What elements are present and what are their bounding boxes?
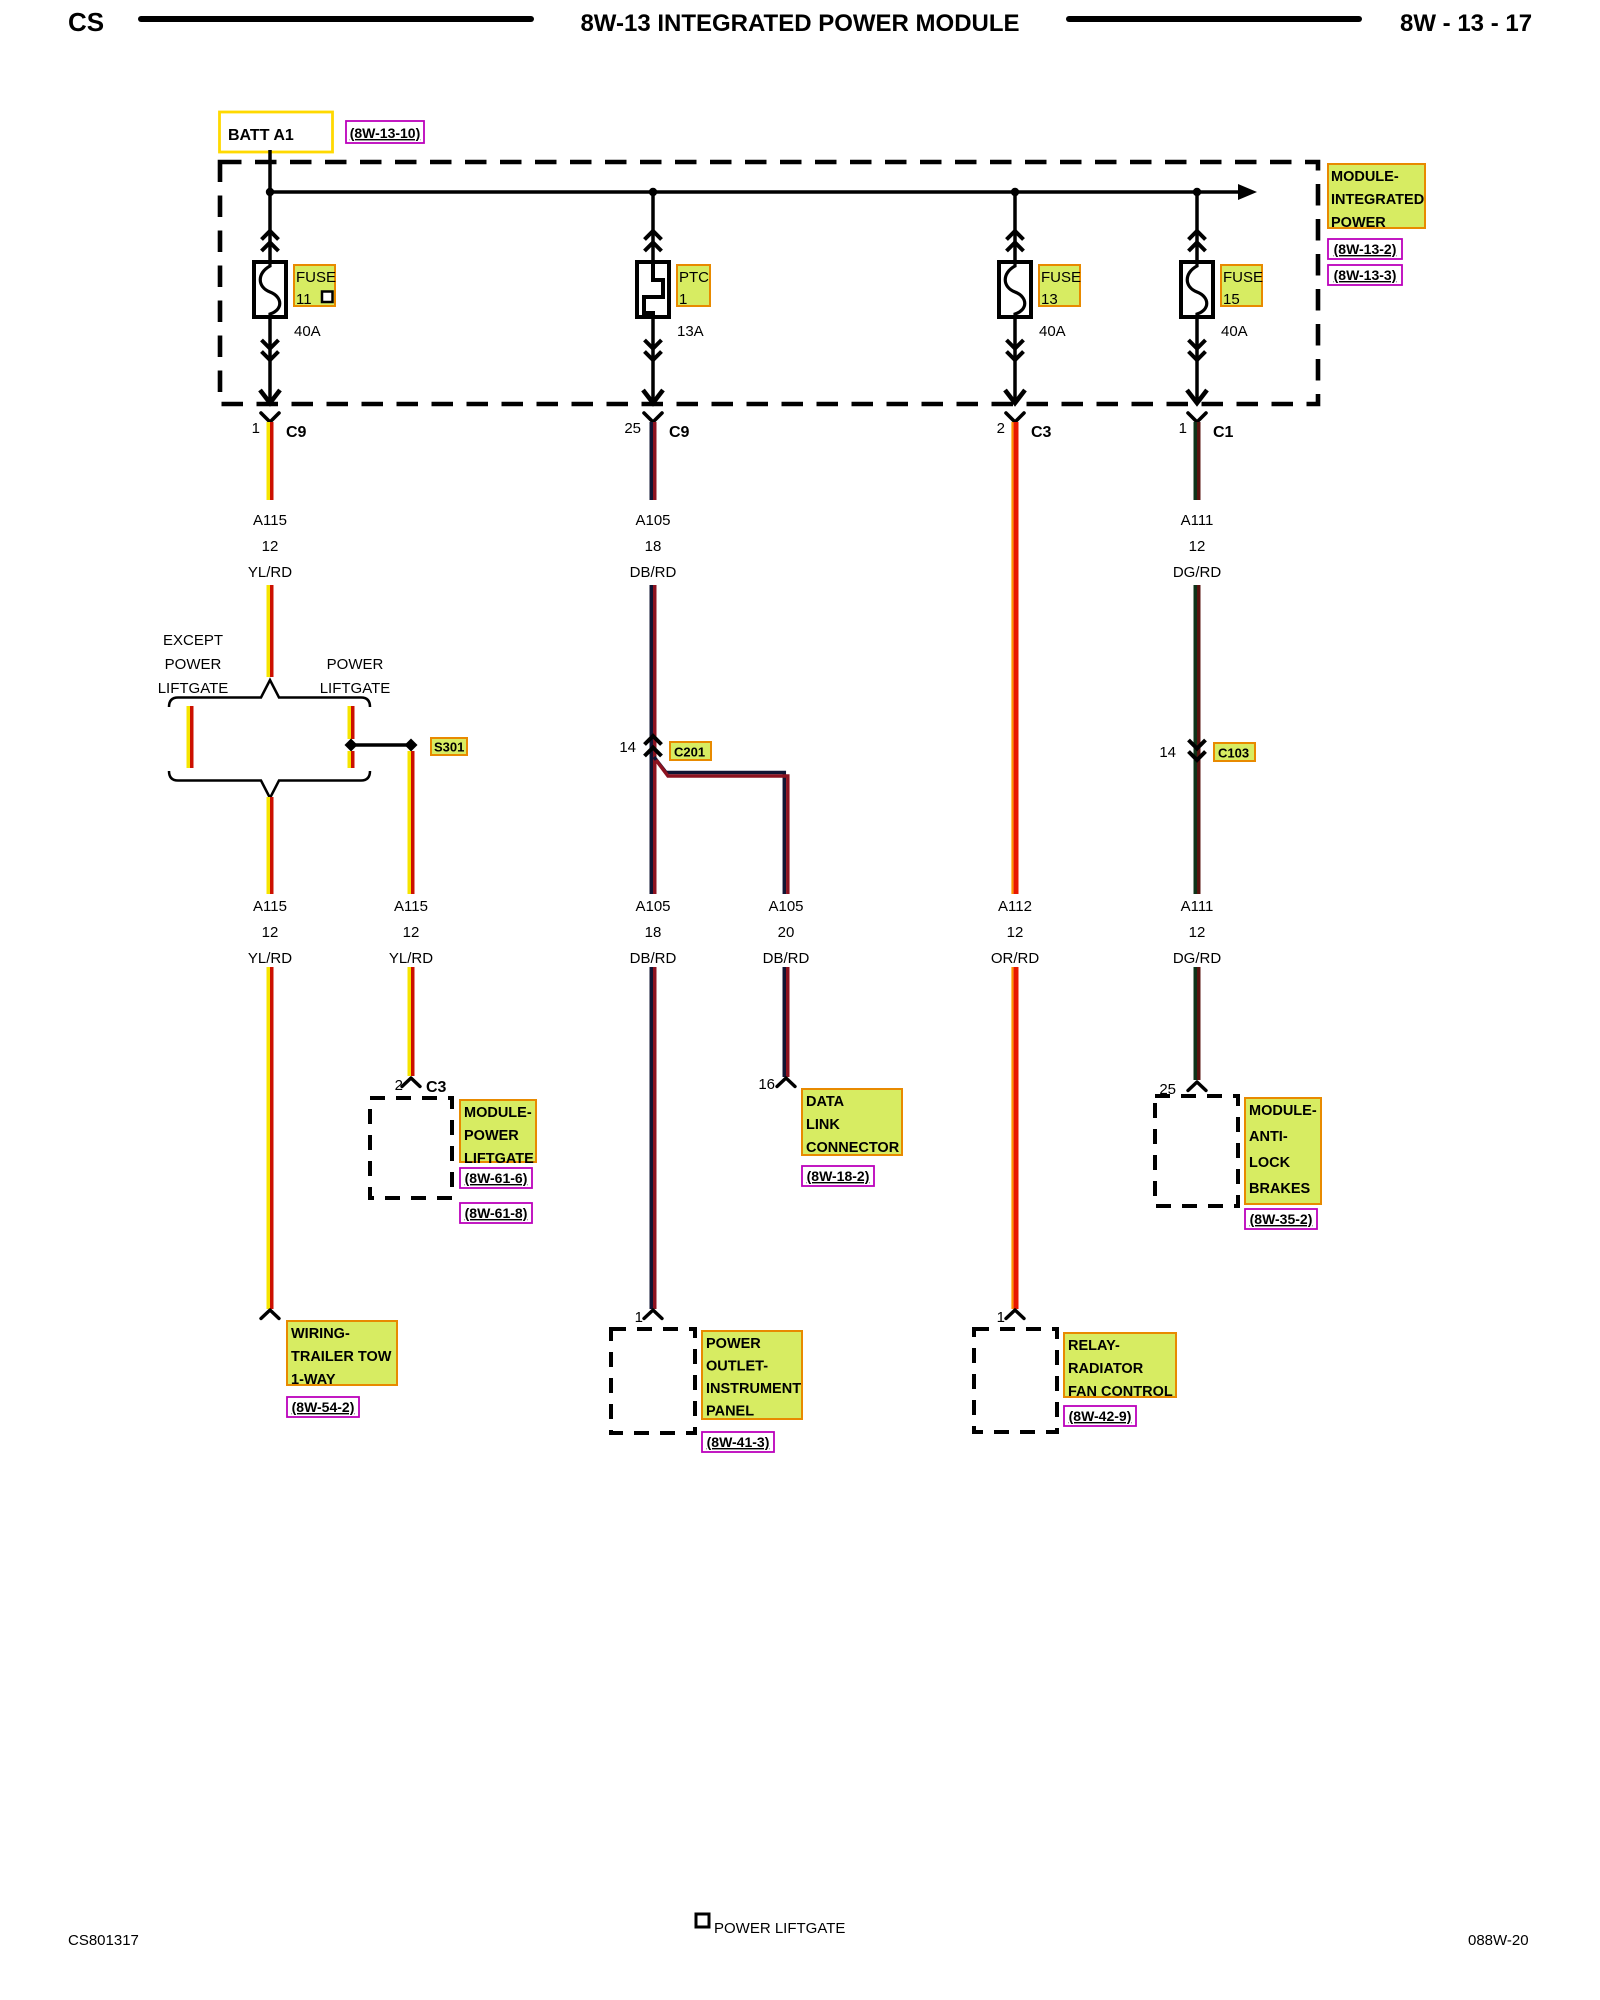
svg-text:C1: C1 — [1213, 424, 1234, 441]
wire A105 seg2 — [651, 585, 655, 894]
hyperlink 8W-13-2 — [1328, 239, 1402, 259]
connector double-chevron above FUSE 11 — [262, 231, 279, 251]
wire A115 seg2 — [268, 585, 272, 677]
svg-text:1: 1 — [635, 1309, 643, 1326]
svg-text:(8W-18-2): (8W-18-2) — [807, 1168, 870, 1184]
fuse FUSE 13 symbol — [999, 262, 1031, 317]
wire below fuse 15 — [1195, 317, 1199, 402]
svg-text:OR/RD: OR/RD — [991, 950, 1040, 967]
svg-text:LIFTGATE: LIFTGATE — [320, 680, 391, 697]
svg-text:8W - 13 - 17: 8W - 13 - 17 — [1400, 10, 1532, 37]
svg-text:2: 2 — [395, 1077, 403, 1094]
svg-text:1: 1 — [679, 291, 687, 308]
svg-text:18: 18 — [645, 924, 662, 941]
svg-text:BATT A1: BATT A1 — [228, 127, 294, 144]
svg-text:S301: S301 — [434, 740, 464, 755]
relay-radiator fan control label — [1064, 1333, 1176, 1400]
connector double-chevron above PTC 1 — [645, 231, 662, 251]
svg-text:MODULE-: MODULE- — [1331, 169, 1399, 185]
fuse label FUSE 15 — [1221, 265, 1263, 308]
connector C1 pin 1 — [1188, 413, 1206, 422]
wire A112 seg1 — [1012, 422, 1016, 894]
svg-text:POWER: POWER — [1331, 215, 1386, 231]
ptc label PTC 1 — [677, 265, 710, 308]
svg-text:MODULE-: MODULE- — [464, 1105, 532, 1121]
svg-text:(8W-35-2): (8W-35-2) — [1250, 1211, 1313, 1227]
splice diamond S301 splice b — [405, 739, 418, 752]
svg-text:FUSE: FUSE — [1223, 269, 1263, 286]
svg-text:A112: A112 — [998, 898, 1032, 915]
hyperlink 8W-61-8 — [460, 1203, 532, 1223]
wire A111 seg3 — [1195, 967, 1199, 1080]
svg-text:POWER: POWER — [464, 1128, 519, 1144]
note POWER LIFTGATE — [320, 656, 391, 697]
junction node 2 — [649, 188, 657, 196]
wire end arrow col 11 — [260, 390, 280, 403]
hyperlink 8W-13-3 — [1328, 265, 1402, 285]
ptc PTC 1 symbol — [637, 262, 669, 317]
svg-text:DG/RD: DG/RD — [1173, 564, 1222, 581]
svg-text:BRAKES: BRAKES — [1249, 1181, 1311, 1197]
svg-text:OUTLET-: OUTLET- — [706, 1359, 768, 1375]
connector liftgate module pin2 — [402, 1078, 420, 1087]
wire label A105 top — [630, 512, 677, 581]
splice link wire — [351, 743, 411, 747]
svg-text:1: 1 — [252, 420, 260, 437]
wire A105 seg3 — [651, 967, 655, 1309]
svg-text:FUSE: FUSE — [1041, 269, 1081, 286]
svg-text:2: 2 — [997, 420, 1005, 437]
connector double-chevron above FUSE 15 — [1189, 231, 1206, 251]
svg-text:(8W-13-10): (8W-13-10) — [350, 125, 421, 141]
svg-text:A105: A105 — [768, 898, 803, 915]
junction node 1 — [266, 188, 274, 196]
junction node 4 — [1193, 188, 1201, 196]
svg-text:12: 12 — [1189, 538, 1206, 555]
svg-text:CS801317: CS801317 — [68, 1932, 139, 1949]
fuse label FUSE 11 — [294, 265, 336, 308]
module-anti-lock brakes label — [1245, 1098, 1321, 1204]
wire A111 seg2 — [1195, 585, 1199, 894]
svg-text:DB/RD: DB/RD — [630, 950, 677, 967]
svg-text:A105: A105 — [635, 512, 670, 529]
svg-text:CONNECTOR: CONNECTOR — [806, 1140, 900, 1156]
connector power outlet pin1 — [644, 1310, 662, 1319]
svg-text:12: 12 — [262, 538, 279, 555]
connector trailer tow in — [261, 1310, 279, 1319]
connector C201 label — [670, 742, 711, 760]
module-integrated power label — [1328, 164, 1425, 231]
connector DLC pin16 — [777, 1078, 795, 1087]
wire drop to fuse 13 — [1013, 192, 1017, 263]
fuse FUSE 15 symbol — [1181, 262, 1213, 317]
wire drop to fuse 15 — [1195, 192, 1199, 263]
connector double-chevron below FUSE 15 — [1189, 340, 1206, 360]
hyperlink 8W-41-3 — [702, 1432, 774, 1452]
svg-text:A115: A115 — [394, 898, 428, 915]
svg-text:PANEL: PANEL — [706, 1404, 754, 1420]
connector C103 label — [1214, 743, 1255, 761]
svg-text:12: 12 — [262, 924, 279, 941]
hyperlink 8W-18-2 — [802, 1166, 874, 1186]
svg-text:1: 1 — [997, 1309, 1005, 1326]
svg-text:11: 11 — [296, 291, 312, 308]
svg-text:(8W-13-3): (8W-13-3) — [1334, 267, 1397, 283]
svg-text:A105: A105 — [635, 898, 670, 915]
svg-text:FUSE: FUSE — [296, 269, 336, 286]
svg-text:YL/RD: YL/RD — [248, 564, 292, 581]
svg-text:MODULE-: MODULE- — [1249, 1103, 1317, 1119]
connector abs module pin25 — [1188, 1082, 1206, 1091]
svg-text:(8W-61-8): (8W-61-8) — [465, 1205, 528, 1221]
power outlet-instrument panel label — [702, 1331, 802, 1420]
svg-text:LIFTGATE: LIFTGATE — [158, 680, 229, 697]
junction node 3 — [1011, 188, 1019, 196]
bus arrowhead — [1238, 184, 1257, 200]
module-power liftgate label — [460, 1100, 536, 1167]
wire label A115 branch — [389, 898, 433, 967]
wire label A111 top — [1173, 512, 1222, 581]
svg-text:25: 25 — [624, 420, 641, 437]
svg-text:40A: 40A — [1221, 323, 1248, 340]
svg-text:1-WAY: 1-WAY — [291, 1372, 336, 1388]
hyperlink 8W-13-10 — [346, 121, 424, 143]
svg-text:13A: 13A — [677, 323, 704, 340]
svg-text:40A: 40A — [294, 323, 321, 340]
connector double-chevron C201 — [645, 736, 662, 756]
wire A112 seg2 — [1012, 967, 1016, 1309]
wire label A111 mid — [1173, 898, 1222, 967]
wire drop to fuse 11 — [268, 192, 272, 263]
hyperlink 8W-42-9 — [1064, 1406, 1136, 1426]
connector radiator fan relay pin1 — [1006, 1310, 1024, 1319]
data link connector label — [802, 1089, 902, 1156]
header right rule — [1069, 16, 1359, 22]
svg-text:C3: C3 — [426, 1079, 447, 1096]
brace split top — [169, 680, 370, 707]
wire A115 liftgate branch upper — [349, 706, 353, 739]
svg-text:(8W-41-3): (8W-41-3) — [707, 1434, 770, 1450]
svg-text:RELAY-: RELAY- — [1068, 1338, 1120, 1354]
svg-text:(8W-42-9): (8W-42-9) — [1069, 1408, 1132, 1424]
svg-text:12: 12 — [1189, 924, 1206, 941]
svg-text:POWER: POWER — [165, 656, 222, 673]
component outline module-anti-lock brakes — [1155, 1096, 1238, 1206]
component outline power outlet — [611, 1329, 695, 1433]
svg-text:POWER: POWER — [327, 656, 384, 673]
svg-text:C3: C3 — [1031, 424, 1052, 441]
svg-text:POWER LIFTGATE: POWER LIFTGATE — [714, 1920, 845, 1937]
svg-text:15: 15 — [1223, 291, 1240, 308]
svg-text:DG/RD: DG/RD — [1173, 950, 1222, 967]
connector double-chevron C103 — [1189, 740, 1206, 760]
svg-text:DB/RD: DB/RD — [630, 564, 677, 581]
svg-text:20: 20 — [778, 924, 795, 941]
svg-text:C103: C103 — [1218, 746, 1249, 761]
fuse label FUSE 13 — [1039, 265, 1081, 308]
wire label A105 mid — [630, 898, 677, 967]
svg-text:12: 12 — [403, 924, 420, 941]
connector C3 pin 2 — [1006, 413, 1024, 422]
wire below fuse 11 — [268, 317, 272, 402]
svg-text:PTC: PTC — [679, 269, 709, 286]
component outline module-power liftgate — [370, 1098, 452, 1198]
svg-text:CS: CS — [68, 7, 104, 37]
wire end arrow col 1 — [643, 390, 663, 403]
connector double-chevron above FUSE 13 — [1007, 231, 1024, 251]
wire A105 20 seg2 — [784, 967, 788, 1077]
wire label A112 mid — [991, 898, 1040, 967]
wire battery feed — [268, 150, 272, 194]
svg-text:C9: C9 — [286, 424, 307, 441]
svg-text:40A: 40A — [1039, 323, 1066, 340]
fuse FUSE 11 symbol — [254, 262, 286, 317]
wire end arrow col 13 — [1005, 390, 1025, 403]
svg-text:16: 16 — [758, 1076, 775, 1093]
svg-text:DATA: DATA — [806, 1094, 845, 1110]
wire A115 to liftgate module seg2 — [409, 967, 413, 1076]
svg-text:YL/RD: YL/RD — [389, 950, 433, 967]
note EXCEPT POWER LIFTGATE — [158, 632, 229, 697]
svg-text:A111: A111 — [1181, 898, 1214, 915]
connector double-chevron below FUSE 11 — [262, 340, 279, 360]
wire end arrow col 15 — [1187, 390, 1207, 403]
wiring-trailer tow label — [287, 1321, 397, 1388]
svg-text:LINK: LINK — [806, 1117, 840, 1133]
svg-text:RADIATOR: RADIATOR — [1068, 1361, 1144, 1377]
svg-text:1: 1 — [1179, 420, 1187, 437]
wire A105 20 branch elbow — [654, 757, 788, 894]
svg-text:INTEGRATED: INTEGRATED — [1331, 192, 1424, 208]
svg-text:A111: A111 — [1181, 512, 1214, 529]
svg-text:12: 12 — [1007, 924, 1024, 941]
svg-text:C201: C201 — [674, 745, 705, 760]
wire drop to fuse 1 — [651, 192, 655, 263]
splice S301 label — [431, 738, 467, 755]
connector double-chevron below FUSE 13 — [1007, 340, 1024, 360]
component outline relay-radiator fan control — [974, 1329, 1057, 1432]
hyperlink 8W-35-2 — [1245, 1209, 1317, 1229]
svg-text:FAN CONTROL: FAN CONTROL — [1068, 1384, 1173, 1400]
splice diamond S301 splice a — [345, 739, 358, 752]
wire label A105 20 branch — [763, 898, 810, 967]
wire label A115 top — [248, 512, 292, 581]
svg-text:EXCEPT: EXCEPT — [163, 632, 223, 649]
header left rule — [141, 16, 531, 22]
wire A115 to liftgate module seg1 — [409, 751, 413, 894]
svg-text:LOCK: LOCK — [1249, 1155, 1291, 1171]
svg-text:YL/RD: YL/RD — [248, 950, 292, 967]
wire below fuse 1 — [651, 317, 655, 402]
wire A115 seg3 — [268, 797, 272, 894]
svg-text:WIRING-: WIRING- — [291, 1326, 350, 1342]
svg-text:DB/RD: DB/RD — [763, 950, 810, 967]
svg-text:18: 18 — [645, 538, 662, 555]
svg-text:088W-20: 088W-20 — [1468, 1932, 1529, 1949]
svg-text:8W-13 INTEGRATED POWER MODULE: 8W-13 INTEGRATED POWER MODULE — [580, 10, 1019, 37]
svg-text:ANTI-: ANTI- — [1249, 1129, 1288, 1145]
wire A105 seg1 — [651, 422, 655, 500]
svg-text:(8W-13-2): (8W-13-2) — [1334, 241, 1397, 257]
svg-text:(8W-61-6): (8W-61-6) — [465, 1170, 528, 1186]
connector C9 pin 1 — [261, 413, 279, 422]
svg-text:C9: C9 — [669, 424, 690, 441]
svg-text:(8W-54-2): (8W-54-2) — [292, 1399, 355, 1415]
svg-text:TRAILER TOW: TRAILER TOW — [291, 1349, 392, 1365]
legend power liftgate symbol — [696, 1914, 709, 1927]
wire A115 seg1 — [268, 422, 272, 500]
wire below fuse 13 — [1013, 317, 1017, 402]
svg-text:A115: A115 — [253, 512, 287, 529]
bus wire B+ — [270, 190, 1242, 194]
wire A111 seg1 — [1195, 422, 1199, 500]
wire label A115 mid — [248, 898, 292, 967]
svg-text:INSTRUMENT: INSTRUMENT — [706, 1381, 801, 1397]
svg-text:14: 14 — [619, 739, 636, 756]
module-integrated power outline — [220, 162, 1318, 404]
hyperlink 8W-54-2 — [287, 1397, 359, 1417]
svg-text:14: 14 — [1159, 744, 1176, 761]
svg-text:13: 13 — [1041, 291, 1058, 308]
hyperlink 8W-61-6 — [460, 1168, 532, 1188]
wire A115 except-liftgate branch — [188, 706, 192, 768]
svg-text:A115: A115 — [253, 898, 287, 915]
connector C9 pin 25 — [644, 413, 662, 422]
connector double-chevron below PTC 1 — [645, 340, 662, 360]
svg-text:LIFTGATE: LIFTGATE — [464, 1151, 534, 1167]
brace merge bottom — [169, 771, 370, 798]
svg-text:POWER: POWER — [706, 1336, 761, 1352]
wire A115 liftgate branch lower — [349, 751, 353, 768]
battery BATT A1 — [220, 112, 333, 152]
wire A115 seg4 — [268, 967, 272, 1309]
